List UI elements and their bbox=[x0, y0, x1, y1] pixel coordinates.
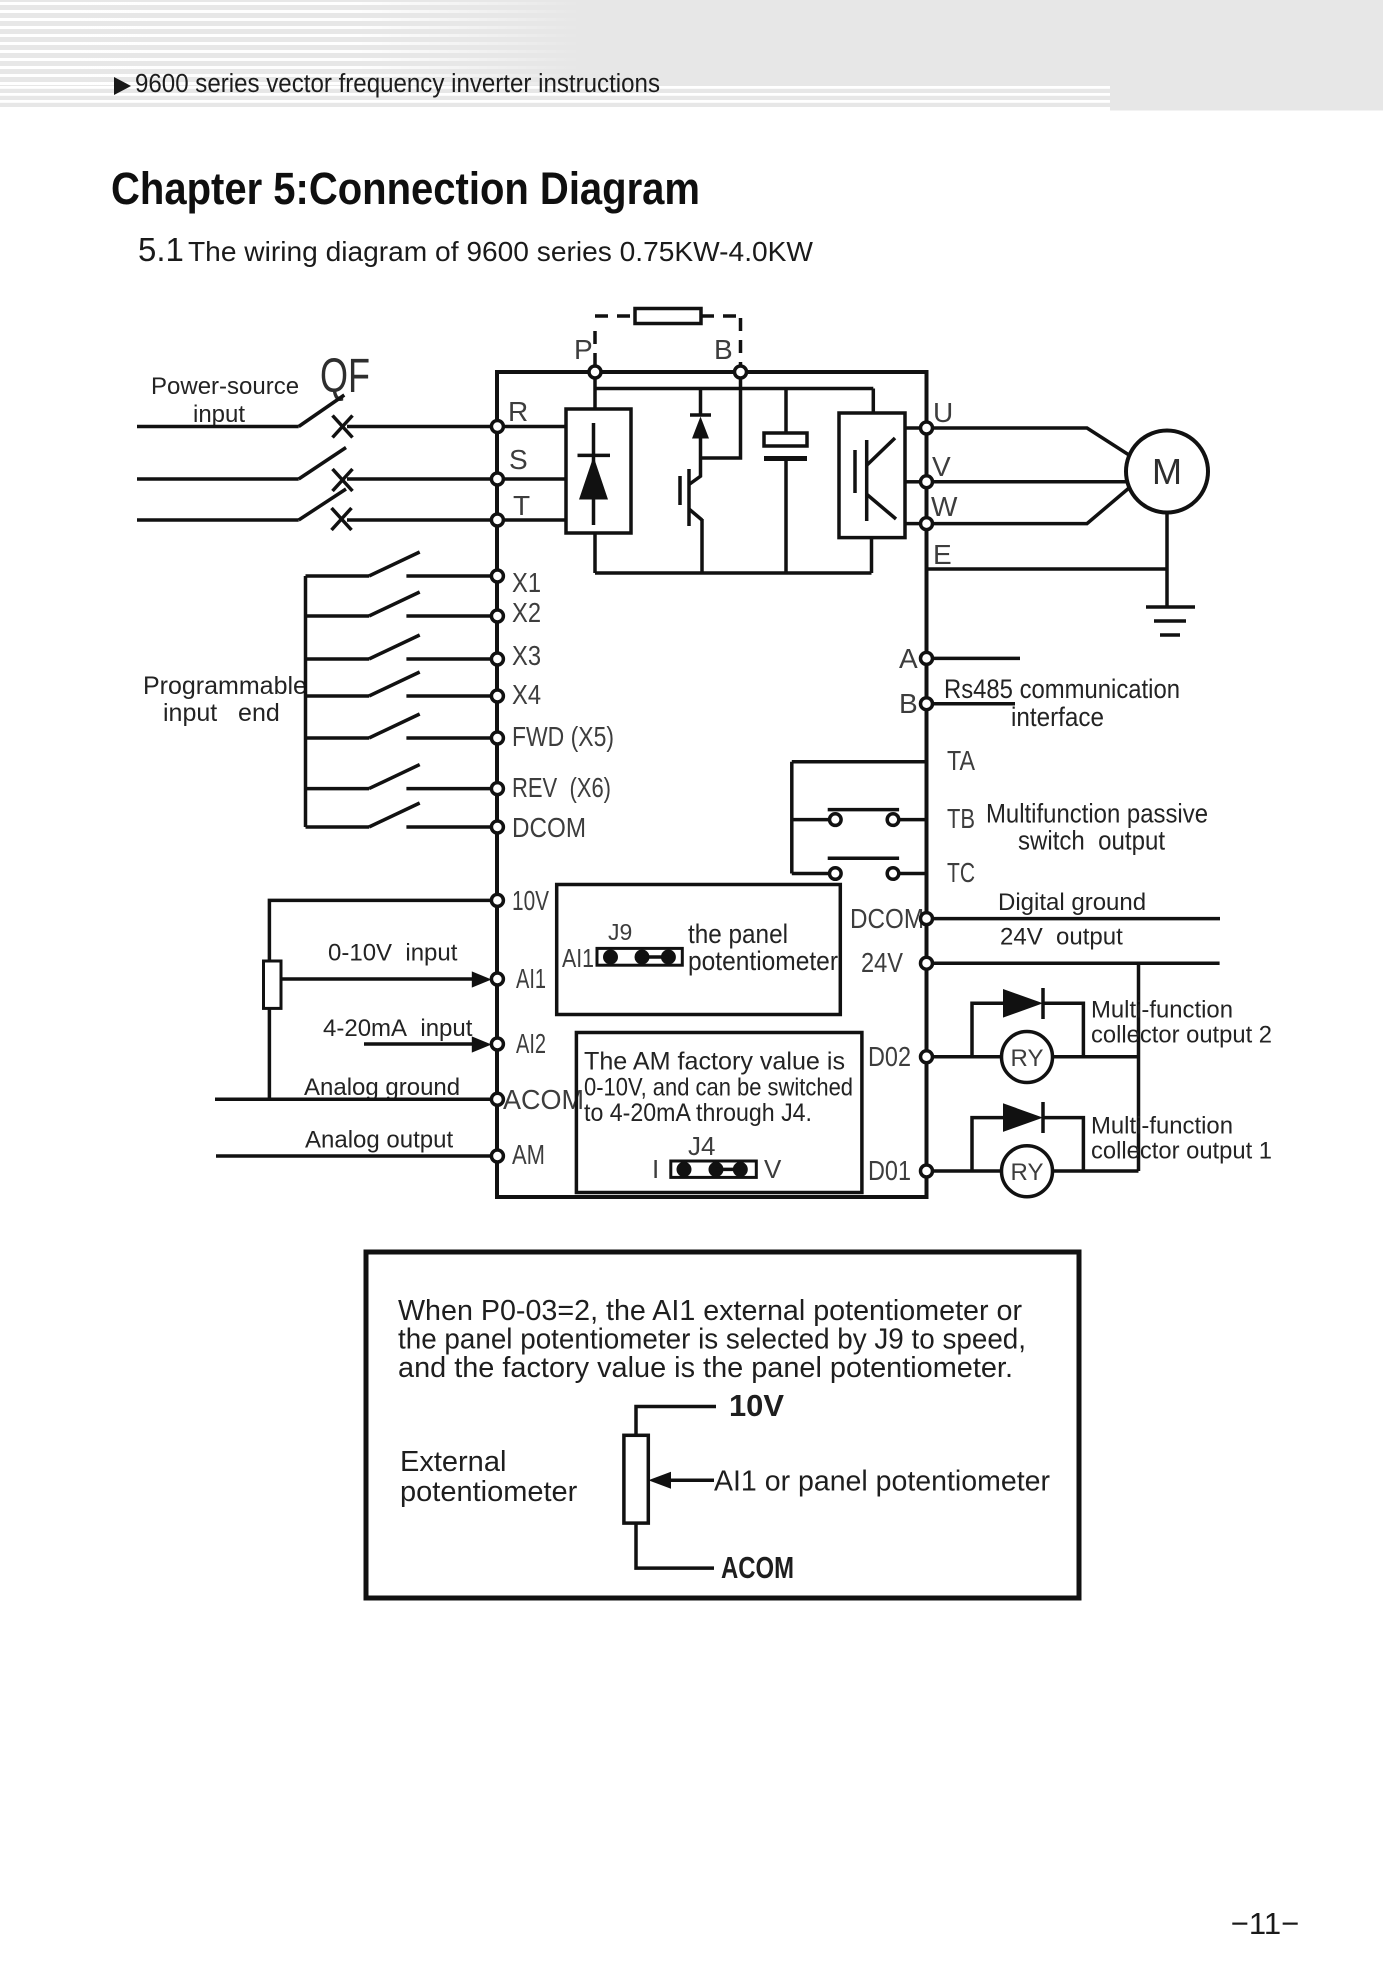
svg-text:Multifunction passive: Multifunction passive bbox=[986, 798, 1208, 828]
relay contact TC bbox=[792, 858, 927, 879]
terminal DCOM right bbox=[921, 913, 933, 925]
switch REV bbox=[306, 765, 492, 789]
svg-text:24V: 24V bbox=[861, 947, 903, 978]
wire inverter to W bbox=[905, 522, 921, 526]
inverter main box bbox=[497, 372, 927, 1197]
svg-text:Multi-function: Multi-function bbox=[1091, 996, 1233, 1023]
svg-text:AI1: AI1 bbox=[516, 963, 546, 994]
terminal D02 bbox=[921, 1051, 933, 1063]
wire dashed horizontal left bbox=[595, 314, 635, 318]
wire ACOM lead bbox=[636, 1523, 714, 1568]
wire R to rectifier bbox=[503, 425, 566, 429]
svg-text:REV (X6): REV (X6) bbox=[512, 772, 611, 803]
svg-text:5.1: 5.1 bbox=[138, 231, 184, 268]
terminal T bbox=[491, 514, 503, 526]
svg-text:R: R bbox=[508, 396, 528, 427]
brake resistor (dashed leads) bbox=[595, 316, 741, 366]
svg-text:The AM factory value is: The AM factory value is bbox=[584, 1047, 845, 1075]
svg-text:AI1: AI1 bbox=[562, 943, 594, 973]
svg-text:A: A bbox=[899, 643, 918, 674]
wire 10V to potentiometer bbox=[269, 900, 491, 961]
wire inverter top stub bbox=[872, 389, 876, 414]
wire relay bus vertical bbox=[790, 762, 794, 874]
switch DCOM bbox=[306, 803, 492, 827]
terminal X4 bbox=[491, 690, 503, 702]
svg-text:X1: X1 bbox=[512, 567, 541, 598]
svg-text:collector output 1: collector output 1 bbox=[1091, 1138, 1272, 1165]
rectifier module box bbox=[566, 409, 631, 533]
wire S phase right bbox=[347, 477, 492, 481]
potentiometer external (note) bbox=[624, 1435, 648, 1523]
svg-text:Analog output: Analog output bbox=[305, 1126, 453, 1153]
wire V to motor bbox=[933, 480, 1128, 484]
wire inverter to V bbox=[905, 480, 921, 484]
terminal S bbox=[491, 473, 503, 485]
svg-text:Chapter 5:Connection Diagram: Chapter 5:Connection Diagram bbox=[111, 163, 700, 214]
wire R phase left bbox=[137, 425, 299, 429]
note box frame bbox=[366, 1252, 1079, 1598]
potentiometer external bbox=[264, 961, 282, 1008]
terminal DCOM left bbox=[491, 821, 503, 833]
svg-text:potentiometer: potentiometer bbox=[400, 1476, 578, 1508]
wire potentiometer bottom bbox=[268, 1008, 272, 1099]
terminal REV bbox=[491, 783, 503, 795]
relay coil RY 2 bbox=[1002, 1032, 1053, 1083]
wire B stub down bbox=[701, 378, 741, 458]
svg-text:DCOM: DCOM bbox=[850, 903, 924, 934]
terminal 24V bbox=[921, 957, 933, 969]
svg-text:4-20mA input: 4-20mA input bbox=[323, 1015, 473, 1042]
svg-text:10V: 10V bbox=[512, 885, 549, 916]
svg-text:to 4-20mA through J4.: to 4-20mA through J4. bbox=[584, 1099, 812, 1127]
svg-text:input end: input end bbox=[163, 699, 280, 727]
breaker X mark S bbox=[333, 469, 353, 491]
svg-text:Rs485 communication: Rs485 communication bbox=[944, 674, 1180, 704]
svg-text:input: input bbox=[193, 401, 245, 428]
wire T phase right bbox=[347, 518, 492, 522]
terminal X3 bbox=[491, 653, 503, 665]
breaker blade R bbox=[299, 395, 345, 427]
svg-text:P: P bbox=[574, 334, 593, 365]
switch X1 bbox=[306, 552, 492, 576]
wire inverter to U bbox=[905, 426, 921, 430]
terminal B rs485 bbox=[921, 698, 933, 710]
terminal ACOM bbox=[491, 1093, 503, 1105]
svg-text:Analog ground: Analog ground bbox=[304, 1074, 460, 1101]
svg-text:T: T bbox=[513, 490, 530, 521]
svg-text:switch output: switch output bbox=[1018, 825, 1165, 855]
wire input bus vertical bbox=[304, 576, 308, 827]
wire DC bus bbox=[593, 378, 597, 409]
svg-text:The wiring diagram of 9600 ser: The wiring diagram of 9600 series 0.75KW… bbox=[188, 236, 814, 267]
svg-text:RY: RY bbox=[1011, 1045, 1044, 1072]
svg-text:M: M bbox=[1152, 451, 1182, 492]
svg-text:24V output: 24V output bbox=[1000, 924, 1123, 951]
inverter module box bbox=[839, 413, 905, 538]
header stripes (bottom rows) bbox=[0, 86, 1110, 103]
svg-text:X2: X2 bbox=[512, 597, 541, 628]
svg-text:FWD (X5): FWD (X5) bbox=[512, 721, 614, 752]
header stripes (left, fading) bbox=[0, 2, 1383, 85]
wire AM bbox=[216, 1154, 492, 1158]
switch X4 bbox=[306, 672, 492, 696]
wire dashed horizontal right bbox=[701, 314, 741, 318]
svg-text:W: W bbox=[931, 491, 958, 522]
svg-text:TC: TC bbox=[947, 857, 975, 888]
terminal AM bbox=[491, 1150, 503, 1162]
diode rectifier symbol bbox=[578, 423, 611, 525]
terminal A bbox=[921, 652, 933, 664]
svg-text:U: U bbox=[933, 397, 953, 428]
J4 note box bbox=[576, 1033, 862, 1193]
arrow wiper bbox=[664, 1478, 714, 1482]
wire inverter bottom stub bbox=[870, 538, 874, 573]
svg-text:J9: J9 bbox=[608, 919, 632, 945]
svg-text:E: E bbox=[933, 539, 952, 570]
wire T phase left bbox=[137, 518, 299, 522]
wire AI2 with arrow bbox=[364, 1042, 473, 1046]
terminal V bbox=[921, 476, 933, 488]
svg-text:X3: X3 bbox=[512, 640, 541, 671]
svg-text:V: V bbox=[764, 1154, 782, 1184]
svg-text:Digital ground: Digital ground bbox=[998, 889, 1146, 916]
svg-text:J4: J4 bbox=[688, 1131, 715, 1161]
terminal AI1 bbox=[491, 973, 503, 985]
svg-text:potentiometer: potentiometer bbox=[688, 946, 838, 976]
switch X3 bbox=[306, 635, 492, 659]
terminal W bbox=[921, 518, 933, 530]
svg-text:I: I bbox=[652, 1154, 659, 1184]
svg-text:AM: AM bbox=[512, 1139, 545, 1170]
wire collector bus vertical bbox=[1137, 963, 1141, 1171]
wire A bbox=[933, 657, 1021, 661]
wire E line bbox=[927, 567, 1168, 571]
wire dashed vertical P bbox=[593, 322, 597, 366]
wire ACOM bbox=[215, 1098, 492, 1102]
svg-text:the panel: the panel bbox=[688, 919, 788, 949]
wire 24V bbox=[933, 961, 1220, 965]
wire rectifier bottom stub bbox=[593, 533, 597, 573]
switch X2 bbox=[306, 592, 492, 616]
svg-text:AI2: AI2 bbox=[516, 1028, 546, 1059]
svg-text:TA: TA bbox=[947, 745, 975, 776]
diode flyback D02 bbox=[972, 988, 1083, 1057]
wire dashed vertical B bbox=[739, 318, 743, 366]
breaker X mark R bbox=[333, 416, 353, 438]
terminal AI2 bbox=[491, 1038, 503, 1050]
svg-text:V: V bbox=[932, 451, 951, 482]
svg-text:RY: RY bbox=[1011, 1159, 1044, 1186]
wire TA bbox=[792, 760, 927, 764]
jumper J4 bbox=[671, 1161, 757, 1177]
diode flyback D01 bbox=[972, 1102, 1083, 1171]
svg-text:9600 series vector frequency i: 9600 series vector frequency inverter in… bbox=[135, 70, 660, 98]
svg-text:interface: interface bbox=[1011, 702, 1104, 732]
relay contact TB bbox=[792, 810, 927, 826]
breaker blade T bbox=[299, 489, 346, 520]
wire S to rectifier bbox=[503, 477, 566, 481]
wire motor to ground bbox=[1165, 513, 1169, 608]
relay coil RY 1 bbox=[1002, 1146, 1053, 1197]
wire D02 to RY bbox=[933, 1055, 1002, 1059]
wire 10V lead bbox=[636, 1407, 716, 1436]
svg-text:ACOM: ACOM bbox=[503, 1084, 584, 1115]
wire R phase right bbox=[347, 425, 492, 429]
svg-text:−11−: −11− bbox=[1231, 1906, 1299, 1941]
terminal U bbox=[921, 422, 933, 434]
svg-text:B: B bbox=[899, 688, 918, 719]
svg-text:S: S bbox=[509, 444, 528, 475]
svg-text:collector output 2: collector output 2 bbox=[1091, 1021, 1272, 1048]
svg-text:B: B bbox=[714, 334, 733, 365]
terminal X1 bbox=[491, 570, 503, 582]
terminal D01 bbox=[921, 1165, 933, 1177]
svg-text:Power-source: Power-source bbox=[151, 373, 299, 400]
wire RY2 to bus bbox=[1053, 1055, 1139, 1059]
jumper J9 bbox=[597, 948, 682, 965]
svg-text:When P0-03=2, the AI1 external: When P0-03=2, the AI1 external potentiom… bbox=[398, 1295, 1022, 1327]
motor M circle bbox=[1126, 431, 1208, 513]
svg-text:External: External bbox=[400, 1446, 506, 1478]
svg-text:DCOM: DCOM bbox=[512, 812, 586, 843]
switch FWD bbox=[306, 714, 492, 738]
wire DCOM right bbox=[933, 917, 1221, 921]
wire B rs485 bbox=[933, 702, 1016, 706]
svg-text:D01: D01 bbox=[868, 1155, 911, 1186]
diode brake chopper bbox=[690, 389, 711, 459]
svg-text:AI1 or panel potentiometer: AI1 or panel potentiometer bbox=[714, 1466, 1050, 1498]
wire U to motor bbox=[933, 428, 1130, 455]
svg-text:10V: 10V bbox=[729, 1388, 784, 1423]
transistor inverter IGBT bbox=[855, 438, 896, 521]
svg-text:Multi-function: Multi-function bbox=[1091, 1113, 1233, 1140]
terminal P bbox=[589, 366, 601, 378]
wire S phase left bbox=[137, 477, 299, 481]
wire W to motor bbox=[933, 488, 1130, 524]
svg-text:0-10V, and can be switched: 0-10V, and can be switched bbox=[584, 1073, 853, 1101]
transistor brake IGBT bbox=[680, 458, 702, 573]
svg-text:X4: X4 bbox=[512, 679, 541, 710]
svg-text:D02: D02 bbox=[868, 1041, 911, 1072]
ground symbol bbox=[1146, 607, 1195, 635]
terminal B bbox=[735, 366, 747, 378]
terminal R bbox=[491, 421, 503, 433]
svg-text:ACOM: ACOM bbox=[721, 1550, 794, 1585]
J9 selector box bbox=[557, 885, 841, 1015]
terminal 10V bbox=[491, 894, 503, 906]
terminal X2 bbox=[491, 610, 503, 622]
header marker triangle bbox=[114, 77, 131, 95]
capacitor DC link bbox=[764, 389, 807, 574]
wire AI1 with arrow bbox=[281, 977, 473, 981]
svg-text:QF: QF bbox=[320, 350, 370, 403]
header gray band bbox=[0, 0, 1383, 107]
svg-text:and the factory value is the p: and the factory value is the panel poten… bbox=[398, 1352, 1013, 1384]
svg-text:TB: TB bbox=[947, 803, 975, 834]
breaker X mark T bbox=[332, 508, 352, 530]
wire bottom DC bus bbox=[595, 571, 872, 575]
terminal FWD bbox=[491, 732, 503, 744]
breaker blade S bbox=[299, 448, 346, 480]
wire RY1 to bus bbox=[1053, 1169, 1139, 1173]
svg-text:Programmable: Programmable bbox=[143, 672, 307, 700]
svg-text:0-10V input: 0-10V input bbox=[328, 940, 458, 967]
wire T to rectifier bbox=[503, 518, 566, 522]
svg-text:the panel potentiometer is sel: the panel potentiometer is selected by J… bbox=[398, 1324, 1026, 1356]
wire D01 to RY bbox=[933, 1169, 1002, 1173]
resistor brake bbox=[635, 309, 701, 324]
